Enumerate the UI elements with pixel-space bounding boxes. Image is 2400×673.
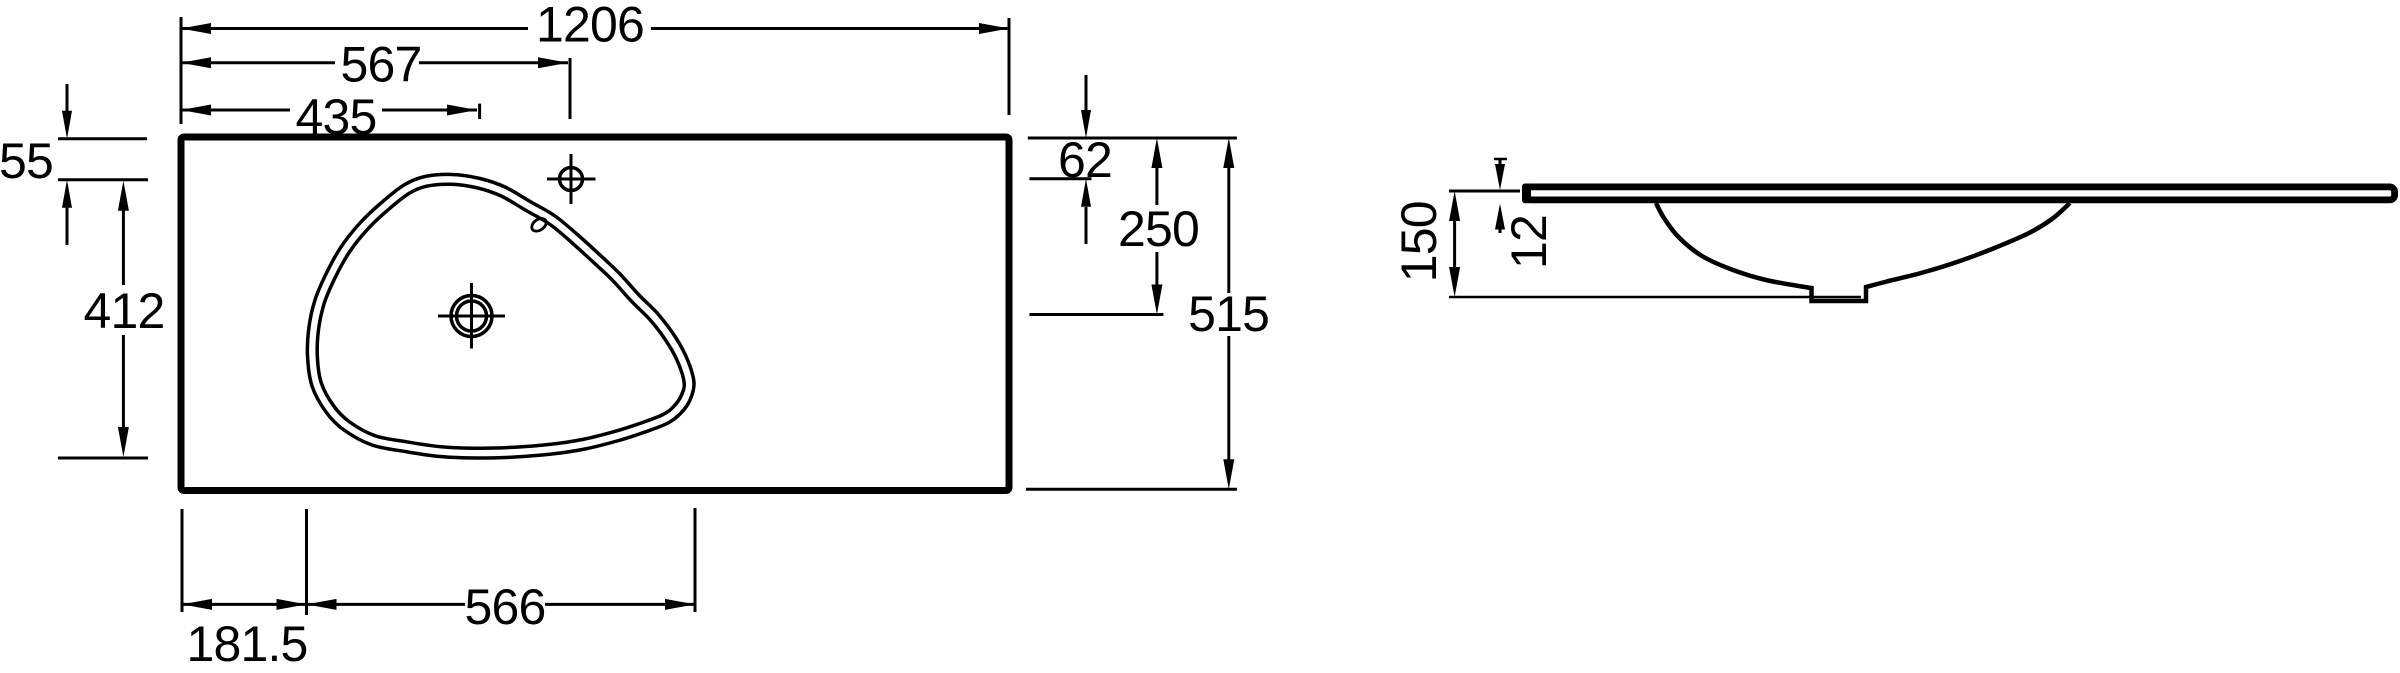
svg-text:567: 567	[340, 37, 421, 93]
svg-text:435: 435	[295, 89, 376, 145]
svg-text:250: 250	[1118, 201, 1199, 257]
svg-text:181.5: 181.5	[186, 616, 307, 672]
svg-text:12: 12	[1501, 215, 1557, 269]
svg-text:566: 566	[464, 579, 545, 635]
svg-text:150: 150	[1391, 201, 1447, 282]
svg-text:1206: 1206	[536, 0, 644, 53]
svg-text:515: 515	[1188, 286, 1269, 342]
svg-text:55: 55	[0, 133, 53, 189]
svg-text:412: 412	[83, 283, 164, 339]
svg-text:62: 62	[1058, 132, 1112, 188]
